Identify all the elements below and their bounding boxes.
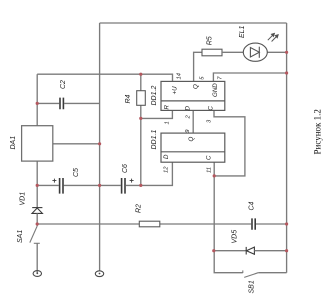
- switch SB1: [243, 270, 287, 277]
- wire C5 C6 line: [37, 162, 172, 185]
- svg-text:D: D: [185, 106, 192, 111]
- wire VD1 to SA1: [36, 213, 38, 226]
- svg-text:SA1: SA1: [17, 230, 24, 243]
- node LED right: [285, 51, 288, 54]
- node VD5 left: [212, 249, 215, 252]
- svg-text:R2: R2: [136, 204, 143, 213]
- capacitor C6: [122, 178, 125, 194]
- svg-text:+U: +U: [172, 86, 179, 95]
- node R4 pin1: [139, 117, 142, 120]
- svg-text:SB1: SB1: [249, 280, 256, 293]
- led EL1: [243, 33, 278, 61]
- node C5 left: [36, 184, 39, 187]
- svg-text:R4: R4: [125, 94, 132, 103]
- terminal X2: [95, 271, 103, 277]
- wire LED to right rail: [267, 51, 286, 53]
- wire DD1.2 pin2 to DD1.1 pin9: [192, 110, 194, 133]
- wire SA1 to terminal: [36, 243, 38, 273]
- node GND right: [285, 71, 288, 74]
- svg-text:C6: C6: [122, 164, 129, 173]
- wire VD5 line right: [254, 250, 286, 252]
- polarity plus C6: [130, 179, 134, 183]
- wire +U line: [37, 74, 172, 81]
- svg-text:C2: C2: [60, 80, 67, 89]
- svg-text:VD1: VD1: [20, 192, 27, 206]
- svg-text:C5: C5: [73, 168, 80, 177]
- svg-text:Q: Q: [188, 137, 195, 142]
- wire DA1 output: [53, 143, 100, 145]
- capacitor C5: [60, 178, 63, 194]
- svg-text:D: D: [163, 154, 170, 159]
- wire C2 line: [37, 102, 99, 104]
- resistor R5: [202, 49, 222, 56]
- node R4 top: [139, 73, 142, 76]
- wire DD1.2 pin7 GND to right rail: [213, 73, 286, 81]
- wire DA1 to C5 line: [36, 161, 38, 208]
- terminal X1: [33, 271, 41, 277]
- ic internal labels: [163, 83, 219, 160]
- svg-text:Q: Q: [193, 84, 200, 89]
- labels (rotated): [10, 25, 256, 293]
- svg-text:C: C: [208, 106, 215, 111]
- polarity plus C5: [52, 179, 56, 183]
- node DA1 out: [98, 142, 101, 145]
- wire left rail upper: [36, 74, 38, 126]
- svg-text:R5: R5: [207, 36, 214, 45]
- svg-text:Рисунок 1.2: Рисунок 1.2: [313, 109, 323, 154]
- wire R5 to LED: [222, 51, 243, 53]
- capacitor C2: [60, 98, 63, 110]
- voltage regulator DA1: [22, 126, 53, 161]
- pin numbers: [164, 73, 224, 173]
- switch SA1: [30, 226, 40, 243]
- resistor R2: [139, 221, 160, 227]
- node C2 top: [36, 102, 39, 105]
- node C4 right: [285, 222, 288, 225]
- wire DD1.2 pin3 loop: [214, 110, 245, 175]
- svg-text:DA1: DA1: [10, 136, 17, 150]
- svg-text:1: 1: [165, 121, 171, 124]
- svg-text:EL1: EL1: [239, 25, 246, 38]
- resistor R4: [137, 91, 146, 106]
- wire VD5 line left: [214, 250, 246, 252]
- svg-text:DD1.1: DD1.1: [151, 130, 158, 150]
- svg-text:12: 12: [164, 166, 170, 173]
- svg-text:DD1.2: DD1.2: [151, 86, 158, 106]
- ic DD1.1: [161, 133, 225, 162]
- node R4 bottom: [139, 184, 142, 187]
- diode VD1: [32, 208, 42, 214]
- capacitor C4: [252, 218, 255, 229]
- svg-text:C: C: [206, 155, 213, 160]
- svg-text:R: R: [164, 105, 171, 110]
- svg-text:11: 11: [207, 167, 213, 173]
- node pin3 pin11: [213, 174, 216, 177]
- wire DD1.2 pin5 to R5: [194, 52, 202, 81]
- node VD5 right: [285, 249, 288, 252]
- svg-text:C4: C4: [249, 201, 256, 210]
- svg-text:GND: GND: [212, 83, 219, 97]
- wire ground bus vertical: [99, 23, 101, 271]
- wire DD1.2 pin1 link: [141, 110, 173, 118]
- node SA1 top: [36, 222, 39, 225]
- wire right rail: [286, 23, 288, 273]
- svg-text:VD5: VD5: [232, 230, 239, 244]
- diode VD5: [246, 247, 254, 255]
- node gnd mid: [98, 184, 101, 187]
- wire top supply link: [100, 22, 287, 24]
- wire R4 branch: [140, 74, 142, 185]
- svg-text:14: 14: [177, 73, 183, 79]
- wire DD1.1 pin11 down: [214, 162, 243, 273]
- wire R2 C4 line: [37, 223, 286, 225]
- ic DD1.2: [161, 81, 225, 110]
